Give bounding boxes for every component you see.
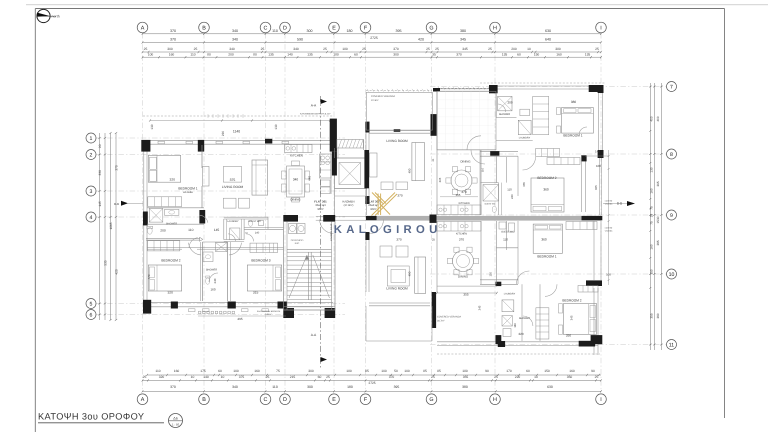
- svg-text:80: 80: [253, 52, 257, 56]
- svg-text:A-A: A-A: [311, 333, 317, 337]
- svg-text:160: 160: [169, 52, 175, 56]
- svg-text:130: 130: [150, 124, 154, 129]
- svg-text:covered: covered: [605, 200, 613, 203]
- svg-text:25: 25: [143, 375, 147, 379]
- svg-text:22.3m²: 22.3m²: [371, 99, 379, 102]
- svg-text:370: 370: [147, 274, 151, 279]
- svg-text:100: 100: [381, 369, 387, 373]
- svg-text:8: 8: [670, 152, 673, 158]
- svg-text:110: 110: [272, 29, 278, 33]
- svg-text:240: 240: [213, 278, 217, 283]
- svg-text:370: 370: [389, 375, 395, 379]
- svg-text:B-B: B-B: [114, 202, 119, 206]
- svg-text:6: 6: [90, 312, 93, 318]
- svg-text:KITCHEN: KITCHEN: [456, 232, 467, 235]
- svg-text:25: 25: [488, 47, 492, 51]
- svg-text:LIVING ROOM: LIVING ROOM: [386, 286, 408, 290]
- svg-text:A: A: [141, 26, 145, 32]
- svg-text:370: 370: [393, 47, 399, 51]
- svg-text:400: 400: [650, 116, 654, 121]
- svg-text:KITCHEN: KITCHEN: [290, 154, 303, 158]
- svg-text:25: 25: [494, 375, 498, 379]
- svg-text:365: 365: [522, 182, 526, 187]
- svg-text:110: 110: [503, 237, 508, 241]
- svg-text:60: 60: [517, 52, 521, 56]
- svg-text:370: 370: [170, 38, 176, 42]
- svg-text:BEDROOM 2: BEDROOM 2: [562, 298, 581, 302]
- svg-text:170: 170: [506, 369, 512, 373]
- svg-text:H: H: [493, 397, 497, 403]
- svg-text:395: 395: [394, 385, 400, 389]
- svg-text:25: 25: [362, 47, 366, 51]
- svg-text:145: 145: [98, 201, 102, 207]
- svg-text:110: 110: [481, 167, 484, 172]
- svg-text:340: 340: [229, 47, 235, 51]
- svg-text:340: 340: [293, 178, 299, 182]
- svg-text:80m²: 80m²: [370, 208, 376, 211]
- svg-text:135: 135: [307, 52, 313, 56]
- svg-text:A-A: A-A: [311, 104, 317, 108]
- svg-text:200: 200: [228, 52, 234, 56]
- svg-text:85: 85: [423, 369, 427, 373]
- svg-text:490: 490: [408, 168, 412, 173]
- svg-text:10: 10: [669, 272, 675, 278]
- svg-text:10: 10: [221, 375, 225, 379]
- svg-text:220: 220: [518, 332, 523, 336]
- svg-text:200: 200: [160, 228, 166, 232]
- svg-text:320: 320: [159, 375, 165, 379]
- svg-text:BEDROOM 1: BEDROOM 1: [178, 186, 197, 190]
- svg-text:B: B: [202, 397, 206, 403]
- svg-text:DINING: DINING: [460, 159, 471, 163]
- svg-text:330: 330: [98, 170, 102, 176]
- svg-text:LAUNDRY: LAUNDRY: [504, 293, 516, 296]
- svg-text:1 : 50: 1 : 50: [172, 423, 179, 427]
- svg-text:25: 25: [326, 375, 330, 379]
- svg-text:60: 60: [218, 369, 222, 373]
- svg-text:A: A: [141, 397, 145, 403]
- svg-text:245: 245: [477, 305, 481, 310]
- svg-text:4: 4: [90, 215, 93, 221]
- svg-text:C: C: [264, 397, 268, 403]
- svg-text:365: 365: [438, 177, 442, 182]
- svg-text:LIVING ROOM: LIVING ROOM: [222, 185, 244, 189]
- svg-text:KALOGIROU: KALOGIROU: [334, 224, 442, 236]
- svg-text:160: 160: [210, 288, 215, 292]
- svg-text:B: B: [202, 26, 206, 32]
- svg-text:E: E: [332, 26, 336, 32]
- svg-text:180: 180: [347, 29, 353, 33]
- svg-text:375: 375: [230, 178, 236, 182]
- svg-text:420: 420: [114, 269, 118, 275]
- svg-text:BEDROOM 1: BEDROOM 1: [563, 134, 582, 138]
- svg-text:180: 180: [347, 385, 353, 389]
- svg-text:340: 340: [232, 385, 238, 389]
- svg-text:150: 150: [544, 369, 550, 373]
- svg-text:GUEST WC: GUEST WC: [248, 220, 261, 223]
- svg-text:130: 130: [274, 124, 278, 129]
- svg-text:220: 220: [515, 375, 521, 379]
- svg-text:I: I: [600, 26, 602, 32]
- svg-text:100: 100: [404, 369, 410, 373]
- svg-text:SHOWER: SHOWER: [206, 269, 217, 272]
- svg-text:160: 160: [650, 188, 654, 193]
- svg-text:370: 370: [461, 190, 466, 194]
- svg-text:630: 630: [547, 385, 553, 389]
- svg-text:370: 370: [459, 238, 464, 242]
- svg-text:25: 25: [595, 375, 599, 379]
- svg-text:350: 350: [567, 375, 573, 379]
- svg-text:490: 490: [408, 271, 412, 276]
- svg-text:140: 140: [287, 52, 293, 56]
- svg-text:covered: covered: [605, 227, 613, 230]
- svg-text:LAUNDRY: LAUNDRY: [227, 220, 239, 223]
- svg-text:35: 35: [432, 52, 436, 56]
- svg-text:C: C: [264, 26, 268, 32]
- svg-text:100: 100: [233, 369, 239, 373]
- svg-text:2725: 2725: [368, 381, 375, 385]
- svg-text:300: 300: [167, 47, 173, 51]
- svg-text:495: 495: [237, 317, 242, 321]
- svg-text:BEDROOM 2: BEDROOM 2: [161, 259, 180, 263]
- svg-text:140: 140: [203, 375, 209, 379]
- svg-text:2725: 2725: [370, 36, 378, 40]
- svg-text:380: 380: [571, 100, 577, 104]
- svg-text:380: 380: [555, 47, 561, 51]
- svg-text:350: 350: [566, 334, 571, 338]
- svg-text:315: 315: [253, 291, 259, 295]
- svg-text:LAUNDRY: LAUNDRY: [519, 137, 531, 140]
- svg-text:160: 160: [254, 369, 260, 373]
- svg-text:85: 85: [437, 369, 441, 373]
- svg-text:370: 370: [456, 52, 462, 56]
- svg-text:355: 355: [650, 313, 654, 318]
- svg-text:10: 10: [534, 375, 538, 379]
- svg-text:75: 75: [276, 369, 280, 373]
- svg-text:135: 135: [268, 52, 274, 56]
- svg-text:G: G: [429, 397, 433, 403]
- svg-text:2: 2: [90, 152, 93, 158]
- svg-text:380: 380: [460, 29, 466, 33]
- svg-text:75: 75: [650, 221, 654, 225]
- svg-text:25: 25: [266, 375, 270, 379]
- svg-text:110: 110: [190, 52, 195, 56]
- svg-text:I: I: [600, 397, 602, 403]
- svg-text:140: 140: [255, 231, 260, 234]
- svg-text:160: 160: [569, 369, 575, 373]
- svg-text:ΠΛΥΝΤΗΡΙΟ: ΠΛΥΝΤΗΡΙΟ: [291, 239, 304, 242]
- svg-text:COVERED VERANDA: COVERED VERANDA: [371, 95, 395, 98]
- svg-text:BEDROOM 1: BEDROOM 1: [537, 255, 556, 259]
- svg-text:340: 340: [293, 47, 299, 51]
- svg-text:140: 140: [595, 150, 600, 154]
- svg-text:DINING: DINING: [458, 274, 469, 278]
- svg-text:375: 375: [239, 375, 245, 379]
- svg-text:25: 25: [194, 47, 198, 51]
- svg-text:630: 630: [545, 29, 551, 33]
- svg-text:180: 180: [462, 369, 468, 373]
- svg-text:G: G: [429, 26, 433, 32]
- svg-text:9: 9: [670, 213, 673, 219]
- svg-text:300: 300: [307, 29, 313, 33]
- svg-text:veranda: veranda: [605, 229, 613, 232]
- svg-text:300: 300: [307, 385, 313, 389]
- svg-text:160: 160: [556, 52, 562, 56]
- svg-text:ΚΛΩΜΕΝ: ΚΛΩΜΕΝ: [342, 199, 354, 203]
- svg-text:135: 135: [585, 52, 591, 56]
- svg-text:1065: 1065: [109, 222, 113, 229]
- svg-text:11: 11: [669, 342, 674, 348]
- svg-text:4.95m²: 4.95m²: [265, 313, 272, 316]
- svg-text:370: 370: [170, 385, 176, 389]
- svg-text:7: 7: [670, 84, 673, 90]
- svg-text:COVERED VERANDA: COVERED VERANDA: [437, 316, 461, 319]
- svg-text:25: 25: [426, 47, 430, 51]
- svg-text:3: 3: [90, 189, 93, 195]
- svg-text:25: 25: [323, 47, 327, 51]
- svg-text:200: 200: [511, 47, 517, 51]
- svg-text:5: 5: [90, 301, 93, 307]
- svg-text:535: 535: [103, 260, 107, 266]
- svg-text:E: E: [332, 397, 336, 403]
- svg-text:90: 90: [485, 369, 489, 373]
- svg-text:2bed apt: 2bed apt: [368, 204, 379, 207]
- svg-text:160: 160: [174, 369, 180, 373]
- svg-text:340: 340: [232, 29, 238, 33]
- svg-text:25: 25: [650, 214, 654, 218]
- svg-text:KITCHEN: KITCHEN: [459, 202, 470, 205]
- svg-text:25: 25: [595, 47, 599, 51]
- svg-text:640: 640: [545, 38, 551, 42]
- svg-text:25: 25: [432, 238, 436, 242]
- svg-text:1140: 1140: [233, 130, 240, 134]
- svg-text:10: 10: [191, 375, 195, 379]
- svg-text:110: 110: [155, 369, 160, 373]
- svg-text:110: 110: [188, 228, 193, 232]
- svg-text:180: 180: [342, 47, 348, 51]
- svg-text:160: 160: [650, 244, 654, 249]
- svg-text:110: 110: [488, 272, 492, 277]
- svg-text:400: 400: [656, 116, 660, 121]
- svg-text:150: 150: [650, 269, 654, 274]
- svg-text:300: 300: [308, 369, 314, 373]
- svg-text:385: 385: [656, 240, 660, 245]
- svg-text:ΚΑΤΟΨΗ 3ου ΟΡΟΦΟΥ: ΚΑΤΟΨΗ 3ου ΟΡΟΦΟΥ: [38, 412, 144, 422]
- svg-text:355: 355: [463, 375, 469, 379]
- svg-text:150: 150: [534, 52, 540, 56]
- svg-text:25: 25: [261, 47, 265, 51]
- svg-text:340: 340: [232, 38, 238, 42]
- svg-text:365: 365: [594, 185, 598, 190]
- svg-text:60: 60: [318, 375, 322, 379]
- svg-text:145: 145: [214, 228, 220, 232]
- svg-text:60: 60: [354, 52, 358, 56]
- svg-text:110: 110: [507, 187, 512, 191]
- svg-text:130: 130: [650, 167, 654, 172]
- svg-text:veranda: veranda: [605, 202, 613, 205]
- svg-text:590: 590: [297, 38, 303, 42]
- svg-text:355: 355: [463, 292, 468, 296]
- svg-text:320: 320: [170, 177, 176, 181]
- svg-text:180: 180: [513, 323, 517, 328]
- svg-text:25: 25: [144, 47, 148, 51]
- svg-text:100: 100: [148, 52, 154, 56]
- svg-text:240: 240: [510, 194, 514, 199]
- svg-text:SHOWER: SHOWER: [499, 113, 510, 116]
- svg-text:420: 420: [418, 38, 424, 42]
- svg-text:80: 80: [207, 52, 211, 56]
- svg-text:25: 25: [431, 375, 435, 379]
- svg-text:365: 365: [656, 181, 660, 186]
- svg-text:345: 345: [460, 38, 466, 42]
- svg-text:Δ6: Δ6: [173, 416, 177, 420]
- svg-text:180: 180: [333, 52, 339, 56]
- svg-text:370: 370: [396, 238, 401, 242]
- svg-text:100: 100: [596, 164, 601, 168]
- svg-text:370: 370: [170, 29, 176, 33]
- svg-text:10: 10: [527, 47, 531, 51]
- svg-text:440: 440: [308, 176, 312, 181]
- svg-text:SHOWER: SHOWER: [166, 222, 177, 225]
- svg-text:360: 360: [543, 188, 549, 192]
- svg-text:90: 90: [591, 369, 595, 373]
- svg-text:BEDROOM 2: BEDROOM 2: [537, 176, 556, 180]
- svg-text:345: 345: [570, 315, 574, 320]
- svg-text:380: 380: [656, 313, 660, 318]
- svg-text:380: 380: [462, 385, 468, 389]
- svg-text:175: 175: [200, 369, 206, 373]
- svg-text:LIVING ROOM: LIVING ROOM: [386, 139, 408, 143]
- svg-text:en-suite: en-suite: [183, 191, 193, 194]
- svg-text:180: 180: [346, 369, 352, 373]
- svg-text:ΚΑΛΥΜΜΕΝΗ ΒΕΡΑΝΤΑ: ΚΑΛΥΜΜΕΝΗ ΒΕΡΑΝΤΑ: [257, 310, 281, 313]
- svg-text:D: D: [283, 26, 287, 32]
- svg-text:85: 85: [365, 369, 369, 373]
- svg-text:ΚΑΛΥΜΜΕΝΗ ΒΕΡΑΝΤΑ 8.2m²: ΚΑΛΥΜΜΕΝΗ ΒΕΡΑΝΤΑ 8.2m²: [300, 113, 331, 116]
- svg-text:345: 345: [462, 47, 468, 51]
- svg-text:395: 395: [396, 29, 402, 33]
- svg-text:215: 215: [290, 375, 296, 379]
- svg-text:ΚΛΩΜΕΝ ΔΙΑΔΡ.: ΚΛΩΜΕΝ ΔΙΑΔΡ.: [330, 223, 333, 241]
- svg-text:355: 355: [456, 193, 461, 197]
- svg-text:135: 135: [502, 52, 508, 56]
- svg-text:50: 50: [394, 369, 398, 373]
- svg-text:370: 370: [114, 165, 118, 171]
- svg-text:60: 60: [526, 369, 530, 373]
- svg-text:220: 220: [221, 131, 225, 136]
- svg-text:370: 370: [397, 193, 402, 197]
- svg-text:BEDROOM 3: BEDROOM 3: [251, 259, 270, 263]
- svg-text:320: 320: [167, 291, 173, 295]
- svg-text:(27.8m²): (27.8m²): [344, 204, 354, 207]
- svg-text:D: D: [283, 397, 287, 403]
- svg-text:DINING: DINING: [290, 197, 301, 201]
- svg-text:360: 360: [541, 237, 547, 241]
- svg-text:1530: 1530: [656, 216, 660, 223]
- svg-text:ΚΛΠ: ΚΛΠ: [295, 242, 300, 245]
- svg-text:200: 200: [507, 101, 512, 105]
- svg-text:300: 300: [393, 52, 399, 56]
- svg-text:90: 90: [98, 144, 102, 148]
- svg-text:north: north: [52, 15, 60, 19]
- svg-text:36.7m²: 36.7m²: [437, 320, 445, 323]
- svg-text:25: 25: [435, 47, 439, 51]
- svg-text:75: 75: [650, 206, 654, 210]
- svg-text:110: 110: [272, 385, 278, 389]
- svg-text:H: H: [493, 26, 497, 32]
- svg-text:1: 1: [90, 136, 93, 142]
- svg-text:GUEST WC: GUEST WC: [485, 202, 496, 205]
